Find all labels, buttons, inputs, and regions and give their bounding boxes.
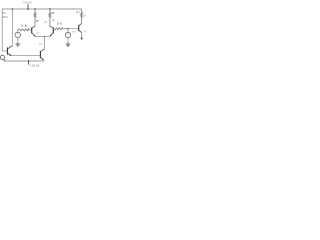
resistor RC1	[34, 9, 36, 26]
wire Q3 emitter to Q4 base	[11, 55, 40, 57]
resistor RL	[80, 9, 82, 23]
junction dot G	[67, 28, 68, 29]
node V- tick	[28, 61, 30, 65]
wire bottom supply rail	[3, 60, 44, 62]
svg-text:R =: R =	[3, 11, 7, 15]
wire Q3 collector to rail	[11, 9, 13, 46]
transistor Q5	[79, 23, 82, 32]
svg-text:10k: 10k	[52, 18, 56, 22]
svg-text:20 k: 20 k	[3, 15, 8, 19]
resistor RC2	[49, 9, 51, 26]
resistor RS1 (input, horizontal)	[18, 29, 32, 31]
svg-text:Q: Q	[84, 30, 87, 33]
ground (right)	[66, 44, 71, 46]
wire emitters bus	[35, 35, 50, 37]
Q3 label	[0, 55, 4, 59]
wire top supply rail	[2, 8, 82, 10]
transistor Q3	[8, 46, 13, 56]
junction dot C	[34, 8, 35, 9]
transistor Q1	[32, 26, 36, 36]
ground (left)	[16, 44, 21, 46]
source VS2	[67, 29, 69, 33]
wire left edge drop to Q3 base	[2, 9, 7, 51]
svg-text:R: R	[52, 11, 55, 15]
wire Q5 emitter output with arrow	[81, 32, 83, 38]
svg-text:R L: R L	[76, 10, 80, 14]
wire tail: emitters node down to Q4 collector	[43, 37, 45, 50]
junction dot F	[44, 36, 45, 37]
resistor RS2 (right, horizontal)	[53, 28, 68, 30]
junction dot B	[12, 8, 14, 10]
svg-text:Q: Q	[36, 32, 39, 35]
junction dot D	[49, 8, 50, 9]
junction dot A	[27, 8, 29, 10]
transistor Q4	[40, 49, 44, 61]
svg-text:R: R	[36, 19, 39, 23]
svg-text:V (12 V): V (12 V)	[23, 0, 31, 4]
svg-text:10: 10	[44, 20, 47, 24]
wire vs2 node to Q5 base	[68, 28, 79, 30]
transistor Q2	[50, 26, 54, 36]
junction dot E	[28, 60, 29, 61]
source VS1	[17, 30, 19, 32]
svg-text:( 12 V): ( 12 V)	[30, 63, 39, 67]
node V+ tick	[27, 4, 29, 9]
